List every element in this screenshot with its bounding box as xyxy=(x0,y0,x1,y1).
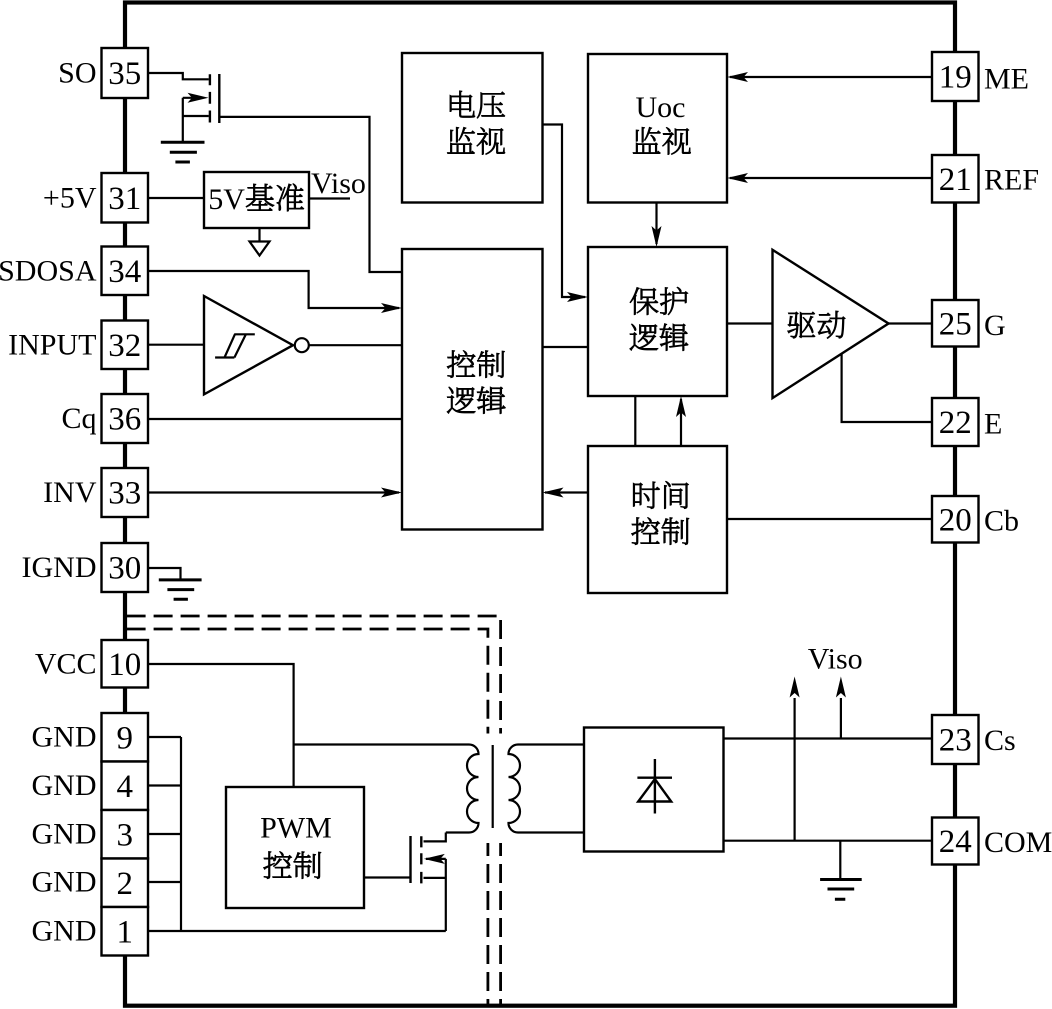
svg-text:G: G xyxy=(984,309,1006,342)
svg-text:IGND: IGND xyxy=(22,551,97,584)
svg-text:32: 32 xyxy=(108,328,141,364)
pin 36 Cq xyxy=(102,394,149,443)
pin 1 GND xyxy=(102,907,149,956)
wire pin36 Cq to control logic xyxy=(148,418,402,420)
isolation barrier dashed line outer xyxy=(127,616,501,734)
wire pin34 SDOSA to control logic xyxy=(148,271,399,308)
ground GND2 at IGND xyxy=(159,580,202,599)
wire schmitt output to control logic xyxy=(309,344,402,346)
pin 21 REF xyxy=(932,155,979,203)
wire PWM to Q2 gate xyxy=(364,876,411,878)
wire 5V ref output Viso xyxy=(309,197,350,199)
svg-text:20: 20 xyxy=(939,502,972,538)
svg-text:GND: GND xyxy=(32,818,97,851)
wire pin3 stub xyxy=(148,833,181,835)
svg-text:Viso: Viso xyxy=(311,167,366,200)
svg-text:5V: 5V xyxy=(208,183,245,216)
svg-text:19: 19 xyxy=(939,60,972,96)
block U4 protection logic 保护逻辑 xyxy=(588,247,727,396)
pin 4 GND xyxy=(102,762,149,811)
wire driver to pin25 G xyxy=(889,322,933,324)
svg-text:GND: GND xyxy=(32,769,97,802)
svg-text:2: 2 xyxy=(117,866,134,902)
svg-text:25: 25 xyxy=(939,306,972,342)
pin 23 Cs xyxy=(932,715,979,764)
svg-text:9: 9 xyxy=(117,720,134,756)
svg-text:INV: INV xyxy=(43,476,97,509)
svg-text:23: 23 xyxy=(939,723,972,759)
wire pin30 IGND to ground xyxy=(148,568,181,579)
inverter U9 schmitt trigger xyxy=(204,296,293,394)
wire pin10 VCC to PWM xyxy=(148,664,294,787)
svg-text:31: 31 xyxy=(108,181,141,217)
wire voltage monitor to protection logic xyxy=(543,125,586,298)
pin 20 Cb xyxy=(932,496,979,543)
wire pin1 to Q2 source xyxy=(148,930,446,932)
wire Uoc monitor to protection logic xyxy=(655,203,657,245)
wire timing control to control logic xyxy=(545,491,588,493)
block U3 control logic 控制逻辑 xyxy=(402,249,543,530)
svg-text:30: 30 xyxy=(108,551,141,587)
diode D1 xyxy=(637,759,672,814)
block U6 PWM control PWM控制 xyxy=(226,787,364,908)
block U1 voltage monitor 电压监视 xyxy=(402,53,543,203)
isolation barrier dashed line inner xyxy=(127,629,488,734)
wire pin2 stub xyxy=(148,881,181,883)
svg-text:1: 1 xyxy=(117,914,134,950)
pin 25 G xyxy=(932,300,979,347)
wire ME to Uoc monitor xyxy=(730,76,932,78)
pin 24 COM xyxy=(932,818,979,865)
wire Viso arrow right xyxy=(840,698,842,739)
svg-text:GND: GND xyxy=(32,915,97,948)
svg-text:REF: REF xyxy=(984,164,1039,197)
svg-text:3: 3 xyxy=(117,817,134,853)
svg-text:PWM: PWM xyxy=(260,812,332,845)
wire protection logic to timing control left xyxy=(634,396,636,446)
svg-text:E: E xyxy=(984,408,1002,441)
svg-text:21: 21 xyxy=(939,162,972,198)
svg-text:SDOSA: SDOSA xyxy=(0,255,97,288)
wire pin33 INV to control logic xyxy=(148,491,399,493)
wire pin4 stub xyxy=(148,784,181,786)
block U7 5V reference 5V基准 xyxy=(204,172,309,228)
wire rectifier to pin24 COM xyxy=(724,840,933,842)
svg-text:VCC: VCC xyxy=(35,647,97,680)
5V ref output triangle symbol xyxy=(258,228,260,242)
svg-text:34: 34 xyxy=(108,254,141,290)
wire GND bus vertical xyxy=(180,737,182,931)
wire Q1 gate to control logic xyxy=(219,117,402,272)
svg-text:35: 35 xyxy=(108,56,141,92)
wire pin35 to Q1 drain xyxy=(148,73,209,79)
wire Viso arrow left xyxy=(793,698,795,841)
transformer T1 primary winding xyxy=(294,745,479,833)
svg-text:10: 10 xyxy=(108,647,141,683)
transistor Q2 MOSFET xyxy=(411,833,446,932)
svg-text:Cq: Cq xyxy=(61,402,96,435)
svg-text:4: 4 xyxy=(117,769,134,805)
pin 3 GND xyxy=(102,810,149,859)
svg-text:GND: GND xyxy=(32,866,97,899)
wire pin9 stub xyxy=(148,736,181,738)
wire timing control to protection logic arrow xyxy=(680,399,682,446)
svg-text:33: 33 xyxy=(108,476,141,512)
svg-text:24: 24 xyxy=(939,824,972,860)
pin 31 +5V xyxy=(102,173,149,223)
pin 10 VCC xyxy=(102,640,149,688)
svg-text:INPUT: INPUT xyxy=(8,328,96,361)
pin 30 IGND xyxy=(102,543,149,592)
svg-text:+5V: +5V xyxy=(43,181,97,214)
block U5 timing control 时间控制 xyxy=(588,446,727,593)
amplifier U8 driver 驱动 xyxy=(773,250,889,398)
svg-text:22: 22 xyxy=(939,405,972,441)
svg-text:36: 36 xyxy=(108,402,141,438)
wire REF to Uoc monitor xyxy=(730,177,932,179)
svg-text:GND: GND xyxy=(32,721,97,754)
svg-text:Cb: Cb xyxy=(984,505,1019,538)
pin 9 GND xyxy=(102,713,149,762)
wire control logic to protection logic xyxy=(543,346,589,348)
svg-text:SO: SO xyxy=(58,57,96,90)
transformer T1 secondary winding xyxy=(509,745,585,833)
block U2 Uoc monitor Uoc监视 xyxy=(588,54,727,203)
wire pin32 to schmitt input xyxy=(148,344,204,346)
ground GND3 at COM line xyxy=(839,841,841,879)
pin 35 SO xyxy=(102,48,149,98)
transistor Q1 MOSFET xyxy=(183,74,220,141)
pin 22 E xyxy=(932,398,979,446)
wire driver to pin22 E xyxy=(842,354,932,422)
wire pin31 to 5V ref xyxy=(148,197,204,199)
ground GND1 below Q1 xyxy=(161,142,205,162)
inverter U9 output bubble xyxy=(295,338,309,352)
pin 19 ME xyxy=(932,52,979,101)
IC outer frame xyxy=(125,3,955,1006)
wire rectifier to pin23 Cs xyxy=(724,737,933,739)
pin 33 INV xyxy=(102,468,149,517)
pin 32 INPUT xyxy=(102,321,149,370)
svg-text:Cs: Cs xyxy=(984,724,1016,757)
block U10 rectifier xyxy=(584,728,724,852)
svg-text:COM: COM xyxy=(984,826,1052,859)
pin 34 SDOSA xyxy=(102,247,149,296)
transformer T1 core xyxy=(492,745,494,828)
svg-text:Viso: Viso xyxy=(808,643,863,676)
svg-text:Uoc: Uoc xyxy=(636,91,686,124)
wire timing control to pin20 Cb xyxy=(727,518,932,520)
svg-text:ME: ME xyxy=(984,63,1029,96)
wire protection logic to driver xyxy=(727,322,773,324)
pin 2 GND xyxy=(102,859,149,908)
